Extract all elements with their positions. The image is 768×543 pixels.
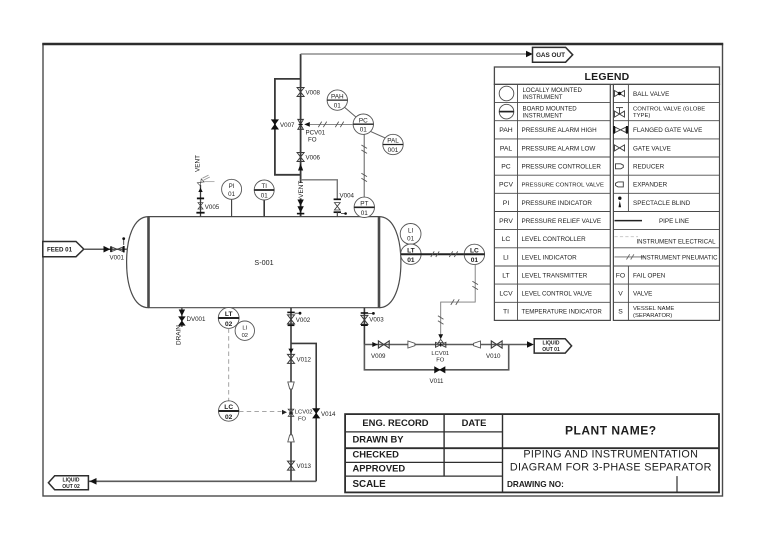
legend table header — [494, 67, 719, 84]
svg-text:PIPE LINE: PIPE LINE — [659, 218, 689, 225]
svg-text:01: 01 — [360, 127, 368, 134]
relief valve PRV to vent — [197, 175, 214, 186]
svg-text:V003: V003 — [369, 316, 384, 323]
svg-text:LEVEL TRANSMITTER: LEVEL TRANSMITTER — [522, 272, 588, 279]
svg-text:DV001: DV001 — [187, 316, 206, 323]
svg-text:CHECKED: CHECKED — [353, 449, 400, 460]
wire V003 drop line — [363, 308, 365, 345]
reducer before LCV02 — [288, 382, 294, 389]
svg-text:INSTRUMENT ELECTRICAL: INSTRUMENT ELECTRICAL — [636, 239, 716, 246]
svg-text:LI: LI — [503, 254, 509, 261]
svg-text:LI: LI — [408, 227, 413, 234]
svg-text:01: 01 — [228, 191, 235, 198]
flag LIQUID OUT 01 — [534, 339, 571, 353]
svg-text:V014: V014 — [321, 411, 336, 418]
svg-text:01: 01 — [407, 235, 414, 242]
svg-text:01: 01 — [261, 193, 268, 200]
svg-text:V006: V006 — [306, 155, 321, 162]
svg-text:VENT: VENT — [194, 155, 201, 172]
svg-text:TI: TI — [261, 183, 267, 190]
flow arrow up on vent — [198, 188, 202, 192]
svg-text:(SEPARATOR): (SEPARATOR) — [633, 313, 672, 319]
svg-text:PCV: PCV — [499, 182, 513, 189]
svg-text:LCV02: LCV02 — [295, 409, 313, 415]
control valve LCV01 FO — [431, 339, 449, 363]
svg-text:V013: V013 — [297, 463, 312, 470]
svg-text:V: V — [618, 291, 623, 298]
svg-text:PLANT NAME?: PLANT NAME? — [565, 423, 657, 437]
wire V002 drop line — [290, 308, 292, 482]
svg-text:LEVEL CONTROL VALVE: LEVEL CONTROL VALVE — [522, 291, 592, 298]
instrument TI 01 — [254, 180, 274, 217]
svg-text:VENT: VENT — [298, 181, 305, 198]
control valve PCV01 FO — [298, 119, 326, 143]
svg-text:LT: LT — [502, 272, 509, 279]
instrument PAL 001 — [383, 134, 403, 154]
svg-text:VALVE: VALVE — [633, 291, 652, 298]
wire feed line to vessel — [84, 248, 128, 250]
flow arrow before V009 — [372, 342, 378, 347]
flag LIQUID OUT 02 — [48, 476, 88, 490]
svg-text:INSTRUMENT PNEUMATIC: INSTRUMENT PNEUMATIC — [641, 254, 719, 261]
svg-text:PRESSURE INDICATOR: PRESSURE INDICATOR — [522, 200, 593, 207]
svg-text:LC: LC — [502, 236, 511, 243]
svg-text:FO: FO — [436, 358, 445, 364]
svg-text:FO: FO — [298, 416, 307, 422]
svg-text:PRESSURE CONTROLLER: PRESSURE CONTROLLER — [522, 164, 602, 171]
svg-text:PRESSURE ALARM HIGH: PRESSURE ALARM HIGH — [522, 127, 598, 134]
svg-text:FAIL OPEN: FAIL OPEN — [633, 272, 666, 279]
svg-text:LIQUID: LIQUID — [63, 478, 80, 484]
wire gas header to GAS OUT — [301, 53, 531, 55]
svg-text:PAL: PAL — [500, 145, 513, 152]
valve V011 (closed) — [430, 367, 446, 385]
valve V003 — [361, 315, 384, 325]
frame top thick edge — [42, 43, 723, 46]
title block text — [353, 417, 657, 490]
legend table grid — [494, 84, 719, 320]
wire pneumatic LC01 to LCV01 — [438, 265, 478, 340]
svg-text:PC: PC — [359, 117, 368, 124]
valve V010 — [486, 341, 502, 360]
svg-text:LC: LC — [470, 248, 479, 255]
drain DV001 — [176, 308, 206, 345]
svg-text:INSTRUMENT: INSTRUMENT — [523, 94, 563, 101]
legend left column rows — [499, 86, 604, 316]
svg-text:V008: V008 — [306, 90, 321, 97]
valve V001 — [110, 246, 125, 261]
svg-text:PRESSURE ALARM LOW: PRESSURE ALARM LOW — [522, 145, 596, 152]
svg-text:SCALE: SCALE — [353, 479, 387, 490]
svg-text:DRAWN BY: DRAWN BY — [353, 434, 405, 445]
svg-text:PC: PC — [501, 164, 511, 171]
svg-text:PT: PT — [360, 201, 368, 208]
instrument PC 01 — [353, 114, 373, 134]
flow arrow up below V006 — [298, 164, 303, 171]
svg-text:OUT 02: OUT 02 — [62, 484, 80, 490]
valve V006 — [297, 153, 320, 162]
svg-text:02: 02 — [225, 414, 233, 421]
svg-text:01: 01 — [407, 257, 415, 264]
valve V014 (closed) — [313, 409, 336, 418]
title block frame — [345, 414, 719, 492]
svg-text:LC: LC — [224, 404, 233, 411]
valve V002 — [288, 315, 311, 325]
svg-text:VESSEL NAME: VESSEL NAME — [633, 306, 674, 312]
svg-text:001: 001 — [388, 147, 399, 154]
svg-text:V012: V012 — [297, 356, 312, 363]
svg-text:GAS OUT: GAS OUT — [536, 52, 565, 59]
wire pneumatic LT01 to LC01 — [401, 251, 485, 257]
valve V008 — [297, 88, 320, 97]
svg-text:GATE VALVE: GATE VALVE — [633, 145, 671, 152]
wire LCV02 bypass — [291, 343, 316, 481]
valve V007 (closed) — [272, 120, 296, 129]
valve V009 — [371, 341, 389, 360]
svg-text:LCV: LCV — [499, 291, 513, 298]
svg-text:INSTRUMENT: INSTRUMENT — [523, 112, 563, 119]
instrument PT 01 — [354, 197, 374, 217]
svg-text:V002: V002 — [296, 317, 311, 324]
instrument LT 02 — [218, 308, 239, 329]
V003 nozzle flange and plug — [361, 312, 375, 315]
valve V005 — [197, 198, 220, 211]
svg-text:V009: V009 — [371, 353, 386, 360]
svg-text:ENG. RECORD: ENG. RECORD — [362, 417, 428, 428]
svg-text:PI: PI — [503, 200, 510, 207]
svg-text:PRESSURE RELIEF VALVE: PRESSURE RELIEF VALVE — [522, 218, 602, 225]
flag FEED 01 — [43, 242, 84, 257]
svg-text:PRESSURE CONTROL VALVE: PRESSURE CONTROL VALVE — [522, 183, 604, 189]
feed nozzle flange with vent plug — [122, 237, 125, 252]
svg-text:DATE: DATE — [462, 417, 487, 428]
vessel nozzle flange for V005 — [196, 212, 204, 214]
flow arrow into GAS OUT — [526, 51, 533, 57]
valve V012 — [288, 354, 312, 363]
svg-text:FO: FO — [616, 272, 625, 279]
svg-text:V011: V011 — [430, 378, 445, 385]
vessel S-001 separator — [127, 217, 401, 308]
vessel gas nozzle flange — [297, 213, 304, 215]
svg-text:V007: V007 — [280, 122, 295, 129]
svg-text:LEVEL CONTROLLER: LEVEL CONTROLLER — [522, 236, 587, 243]
svg-text:LOCALLY MOUNTED: LOCALLY MOUNTED — [523, 87, 583, 94]
svg-text:01: 01 — [361, 210, 369, 217]
wire gas riser from vessel top — [300, 54, 302, 217]
svg-text:PIPING AND INSTRUMENTATION: PIPING AND INSTRUMENTATION — [523, 449, 698, 461]
svg-text:PI: PI — [229, 183, 235, 190]
svg-text:TEMPERATURE INDICATOR: TEMPERATURE INDICATOR — [522, 309, 603, 316]
wire LCV01 bypass — [364, 345, 508, 370]
wire V005 vent line — [200, 185, 202, 217]
valve V013 — [288, 461, 312, 470]
reducer before LCV01 — [408, 341, 415, 348]
VENT label on riser — [297, 181, 306, 199]
instrument LC 01 — [464, 244, 484, 264]
svg-text:02: 02 — [225, 321, 233, 328]
svg-text:PRV: PRV — [499, 218, 513, 225]
svg-text:02: 02 — [242, 333, 248, 339]
instrument PI 01 — [222, 179, 242, 216]
svg-text:FLANGED GATE VALVE: FLANGED GATE VALVE — [633, 127, 702, 134]
svg-text:LEGEND: LEGEND — [585, 71, 630, 83]
wire bottom line to LIQUID OUT 02 — [89, 480, 316, 482]
instrument LC 02 — [219, 401, 240, 421]
svg-text:PAH: PAH — [499, 127, 513, 134]
wire branch to V004 — [301, 180, 338, 200]
svg-text:FEED 01: FEED 01 — [47, 247, 73, 254]
title block description — [510, 449, 712, 474]
svg-text:BOARD MOUNTED: BOARD MOUNTED — [523, 105, 578, 112]
wire PAH to PC — [345, 107, 357, 117]
svg-text:PAL: PAL — [387, 138, 399, 145]
svg-text:01: 01 — [334, 103, 342, 110]
svg-text:V005: V005 — [205, 204, 220, 211]
instrument LT 01 — [401, 244, 421, 264]
svg-text:PCV01: PCV01 — [306, 130, 326, 137]
flag GAS OUT — [533, 47, 573, 62]
svg-text:S-001: S-001 — [254, 258, 273, 267]
svg-text:TI: TI — [503, 309, 509, 316]
instrument LI 02 — [235, 321, 254, 340]
drawing frame border — [43, 44, 723, 496]
svg-text:LI: LI — [242, 325, 247, 331]
instrument PAH 01 — [327, 90, 347, 110]
svg-text:LEVEL INDICATOR: LEVEL INDICATOR — [522, 254, 578, 261]
svg-text:TYPE): TYPE) — [633, 113, 650, 119]
control valve LCV02 FO — [288, 409, 312, 422]
svg-text:PAH: PAH — [331, 93, 344, 100]
svg-text:V004: V004 — [340, 193, 355, 200]
wire electrical LC02 to LCV02 — [239, 410, 287, 415]
svg-text:LT: LT — [225, 311, 233, 318]
wire electrical LT02 to LC02 — [228, 328, 230, 400]
svg-text:SPECTACLE BLIND: SPECTACLE BLIND — [633, 200, 691, 207]
instrument LI 01 — [400, 224, 421, 245]
flow arrow on feed line — [104, 246, 111, 253]
svg-text:REDUCER: REDUCER — [633, 164, 665, 171]
wire pneumatic PC to PCV01 — [304, 122, 353, 128]
svg-text:APPROVED: APPROVED — [353, 463, 406, 474]
svg-text:V010: V010 — [486, 353, 501, 360]
flow arrow down after V002 junction — [288, 349, 293, 354]
svg-text:BALL VALVE: BALL VALVE — [633, 91, 669, 98]
wire pneumatic PC to PT — [361, 134, 367, 197]
expander after LCV02 — [288, 435, 294, 442]
V002 nozzle flange and plug — [287, 312, 301, 315]
vent flow arrows down — [297, 200, 303, 207]
svg-text:DIAGRAM FOR 3-PHASE SEPARATOR: DIAGRAM FOR 3-PHASE SEPARATOR — [510, 461, 712, 473]
wire bypass loop V007 — [275, 79, 301, 175]
svg-text:OUT 01: OUT 01 — [542, 347, 560, 353]
wire PC to PAL — [371, 131, 386, 138]
expander after LCV01 — [474, 341, 481, 348]
svg-text:DRAIN: DRAIN — [176, 325, 183, 345]
svg-text:FO: FO — [308, 137, 317, 144]
svg-text:LIQUID: LIQUID — [543, 341, 560, 347]
valve V004 globe with flanges — [334, 193, 355, 217]
svg-text:CONTROL VALVE (GLOBE: CONTROL VALVE (GLOBE — [633, 106, 705, 112]
svg-text:DRAWING NO:: DRAWING NO: — [507, 480, 564, 489]
svg-text:S: S — [618, 309, 623, 316]
legend right column rows — [614, 91, 718, 319]
svg-text:V001: V001 — [110, 254, 125, 261]
flow arrow into LIQUID OUT 02 — [90, 478, 97, 485]
svg-text:EXPANDER: EXPANDER — [633, 182, 668, 189]
wire liquid out 01 main — [364, 344, 531, 346]
svg-text:01: 01 — [471, 257, 479, 264]
flow arrow into LIQUID OUT 01 — [527, 341, 534, 347]
svg-text:LCV01: LCV01 — [431, 351, 449, 357]
